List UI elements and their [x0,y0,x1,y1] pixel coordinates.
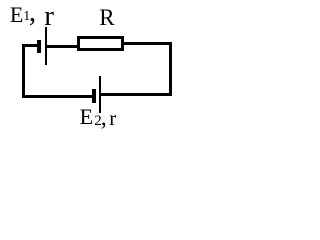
label E1,r : comma [29,0,36,27]
wire: bottom-right horizontal segment (corner to E2 long plate) [101,93,172,96]
wire: resistor R to top-right corner [124,42,172,45]
battery E1 short plate (negative) [37,40,41,53]
battery E2 short plate (negative) [92,89,96,103]
wire: top-left horizontal segment (corner to E1 short plate) [22,44,38,47]
label R of resistor [99,6,114,29]
label E2,r : comma [101,106,107,130]
label E2,r : subscript 2 [94,114,102,129]
label E1,r : E [10,4,23,26]
label E1,r : r [44,2,54,31]
battery E1 long plate (positive) [45,27,47,65]
resistor R body [77,36,124,51]
label E1,r : subscript 1 [23,10,30,24]
wire: left vertical side of loop [22,44,25,98]
label E2,r : r [109,108,116,129]
label E2,r : E [80,106,93,128]
wire: E1 long plate to resistor R [47,45,78,48]
battery E2 long plate (positive) [99,76,101,113]
wire: right vertical side of loop [169,42,172,96]
wire: E2 short plate to bottom-left corner [22,95,92,98]
